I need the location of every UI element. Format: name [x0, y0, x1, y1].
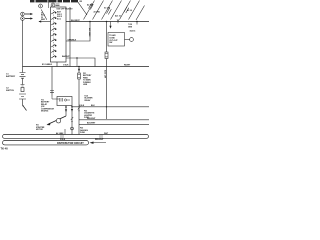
- svg-text:RED/WHT: RED/WHT: [95, 139, 104, 141]
- svg-text:DISTRIBUTOR CIRCUIT: DISTRIBUTOR CIRCUIT: [57, 142, 84, 145]
- wire drop to ACC: [66, 22, 90, 42]
- inline connector on relay feed: [50, 91, 54, 93]
- bar hatch marks: [61, 135, 102, 139]
- svg-text:30A 16: 30A 16: [130, 30, 136, 33]
- junction J6: [78, 66, 80, 68]
- accessory feed wire (vertical): [69, 7, 71, 67]
- fusible link F21 body: [78, 73, 81, 79]
- accessory wire BLK/WHT: [79, 123, 149, 125]
- svg-text:FUSE: FUSE: [80, 132, 86, 134]
- harness wire labels: [80, 1, 132, 17]
- svg-text:BLK/WHT: BLK/WHT: [71, 20, 81, 22]
- svg-text:B1 CABLE: B1 CABLE: [42, 63, 53, 66]
- arrow at bar end: [90, 142, 94, 144]
- svg-text:LINK: LINK: [83, 84, 88, 86]
- switch bottom pigtail wire: [56, 62, 58, 67]
- ignition switch S1 housing: [51, 7, 67, 62]
- svg-text:BA/WHT: BA/WHT: [62, 55, 70, 58]
- connector arrow on pin2 wire: [71, 109, 73, 112]
- connector terminal B (circle with arrow): [21, 17, 33, 21]
- svg-text:IGN OFF RUN ST: IGN OFF RUN ST: [57, 8, 74, 10]
- wire from header to switch: [48, 0, 50, 8]
- ground strap wire: [64, 129, 66, 135]
- starter M1 label: [36, 125, 45, 131]
- fuse F2 body: [105, 52, 108, 59]
- relay Y11 coil: [52, 97, 70, 102]
- header bus bar (top edge): [30, 0, 78, 2]
- wire stub at J3: [136, 22, 138, 25]
- wire arrow to harness (left): [38, 20, 50, 22]
- inline fuse on pin2 wire: [71, 117, 73, 122]
- F20 label: [80, 128, 89, 134]
- wire to bullet connector: [125, 39, 130, 41]
- svg-text:BLK/WHT: BLK/WHT: [87, 123, 96, 125]
- F22 label: [84, 111, 95, 120]
- svg-text:MOTOR: MOTOR: [36, 129, 43, 131]
- svg-text:A3 14: A3 14: [127, 9, 132, 12]
- svg-text:RD: RD: [80, 1, 83, 3]
- wire label 7 DK GRN: [128, 24, 133, 28]
- svg-text:ACC: ACC: [57, 17, 62, 20]
- bullet connector: [130, 38, 134, 42]
- relay Y11 label: [41, 100, 55, 113]
- junction J2: [106, 21, 108, 23]
- grommet on pin2 wire: [71, 127, 74, 130]
- F21 label: [83, 73, 92, 86]
- wire stub with arrow to A/C box: [109, 22, 111, 29]
- svg-text:A2 14R: A2 14R: [87, 4, 94, 7]
- svg-text:A4 14BK: A4 14BK: [56, 132, 64, 135]
- K14 label: [85, 95, 94, 102]
- wire label S2 WHT: [41, 17, 46, 21]
- main vertical feed wire F2: [106, 22, 108, 120]
- wire label S1 BLK: [41, 12, 46, 16]
- svg-text:A142 14R: A142 14R: [104, 70, 107, 79]
- svg-text:5 BLK: 5 BLK: [60, 139, 66, 141]
- svg-text:MOUNT): MOUNT): [41, 111, 49, 113]
- switch pin labels: [57, 11, 62, 21]
- junction J7: [76, 57, 77, 58]
- svg-text:RED: RED: [41, 19, 46, 21]
- battery bus wire (horizontal): [23, 66, 150, 68]
- ground bus bar: [3, 135, 149, 139]
- relay feed wire (down from bus): [51, 67, 53, 97]
- svg-text:A21 16: A21 16: [115, 15, 121, 18]
- svg-text:1 BLK: 1 BLK: [63, 64, 69, 66]
- fuse F2 ticks: [105, 54, 108, 57]
- connector arrow Y (on bus): [117, 19, 119, 23]
- svg-text:SW: SW: [109, 42, 112, 44]
- switch G2 symbol: [19, 85, 26, 106]
- contact on link wire: [78, 106, 80, 111]
- svg-text:GRN/BLK: GRN/BLK: [68, 39, 77, 41]
- svg-text:TK-40: TK-40: [1, 147, 9, 151]
- starter switch contact: [22, 105, 26, 111]
- svg-text:RELAY: RELAY: [85, 99, 92, 102]
- svg-text:SWITCH: SWITCH: [6, 90, 14, 92]
- connector arrow on relay output: [65, 109, 67, 112]
- battery G1 label: [6, 74, 16, 79]
- ring connector on starter wire: [56, 119, 60, 123]
- wire from node 2 to switch: [41, 10, 47, 20]
- switch contact linkage (dashed): [53, 10, 55, 58]
- svg-text:A1 4RD: A1 4RD: [94, 11, 101, 14]
- starter wire arrowhead: [47, 123, 51, 126]
- A/C cutout box labels: [109, 34, 118, 44]
- svg-text:RD/WT: RD/WT: [124, 64, 131, 66]
- horn feed horizontal wire: [72, 106, 149, 108]
- wire stub J7 to bus: [76, 58, 78, 67]
- node 2 (circled terminal 2): [51, 3, 59, 7]
- switch G2 label: [6, 88, 14, 93]
- distributor circuit bar: [3, 141, 89, 145]
- node 1 (circled terminal 1): [39, 4, 43, 8]
- junction J1: [89, 21, 91, 23]
- relay pin 2 wire: [71, 106, 73, 135]
- junction J8: [106, 106, 107, 107]
- junction J3: [136, 21, 138, 23]
- relay output wire: [65, 106, 67, 117]
- A/C cutout box: [108, 33, 125, 47]
- wire into arrow: [94, 142, 107, 144]
- wire to starter (diagonal): [48, 116, 67, 125]
- switch output wire (BAT): [66, 58, 95, 67]
- svg-text:A21 16BK: A21 16BK: [88, 28, 91, 37]
- relay Y11 box: [57, 97, 72, 106]
- fusible link column wire: [78, 67, 80, 135]
- junction J5: [71, 106, 73, 108]
- battery G1 symbol: [20, 67, 26, 85]
- main feed bus wire (horizontal): [66, 21, 149, 23]
- fusible link F21 tick: [78, 75, 81, 78]
- switch contacts: [51, 11, 56, 58]
- svg-text:X3 16B: X3 16B: [104, 8, 111, 10]
- harness diagonal hatch bundle: [78, 1, 145, 21]
- svg-text:RED/WHT: RED/WHT: [87, 118, 96, 120]
- junction J4: [65, 106, 67, 108]
- accessory wire RED/WHT: [79, 119, 149, 121]
- connector terminal A (circle with arrow): [21, 12, 33, 16]
- svg-text:GRN: GRN: [128, 26, 133, 28]
- svg-text:BATTERY: BATTERY: [6, 75, 16, 78]
- wire from terminals down to battery bus: [22, 20, 24, 66]
- connector arrow on link wire: [78, 69, 80, 72]
